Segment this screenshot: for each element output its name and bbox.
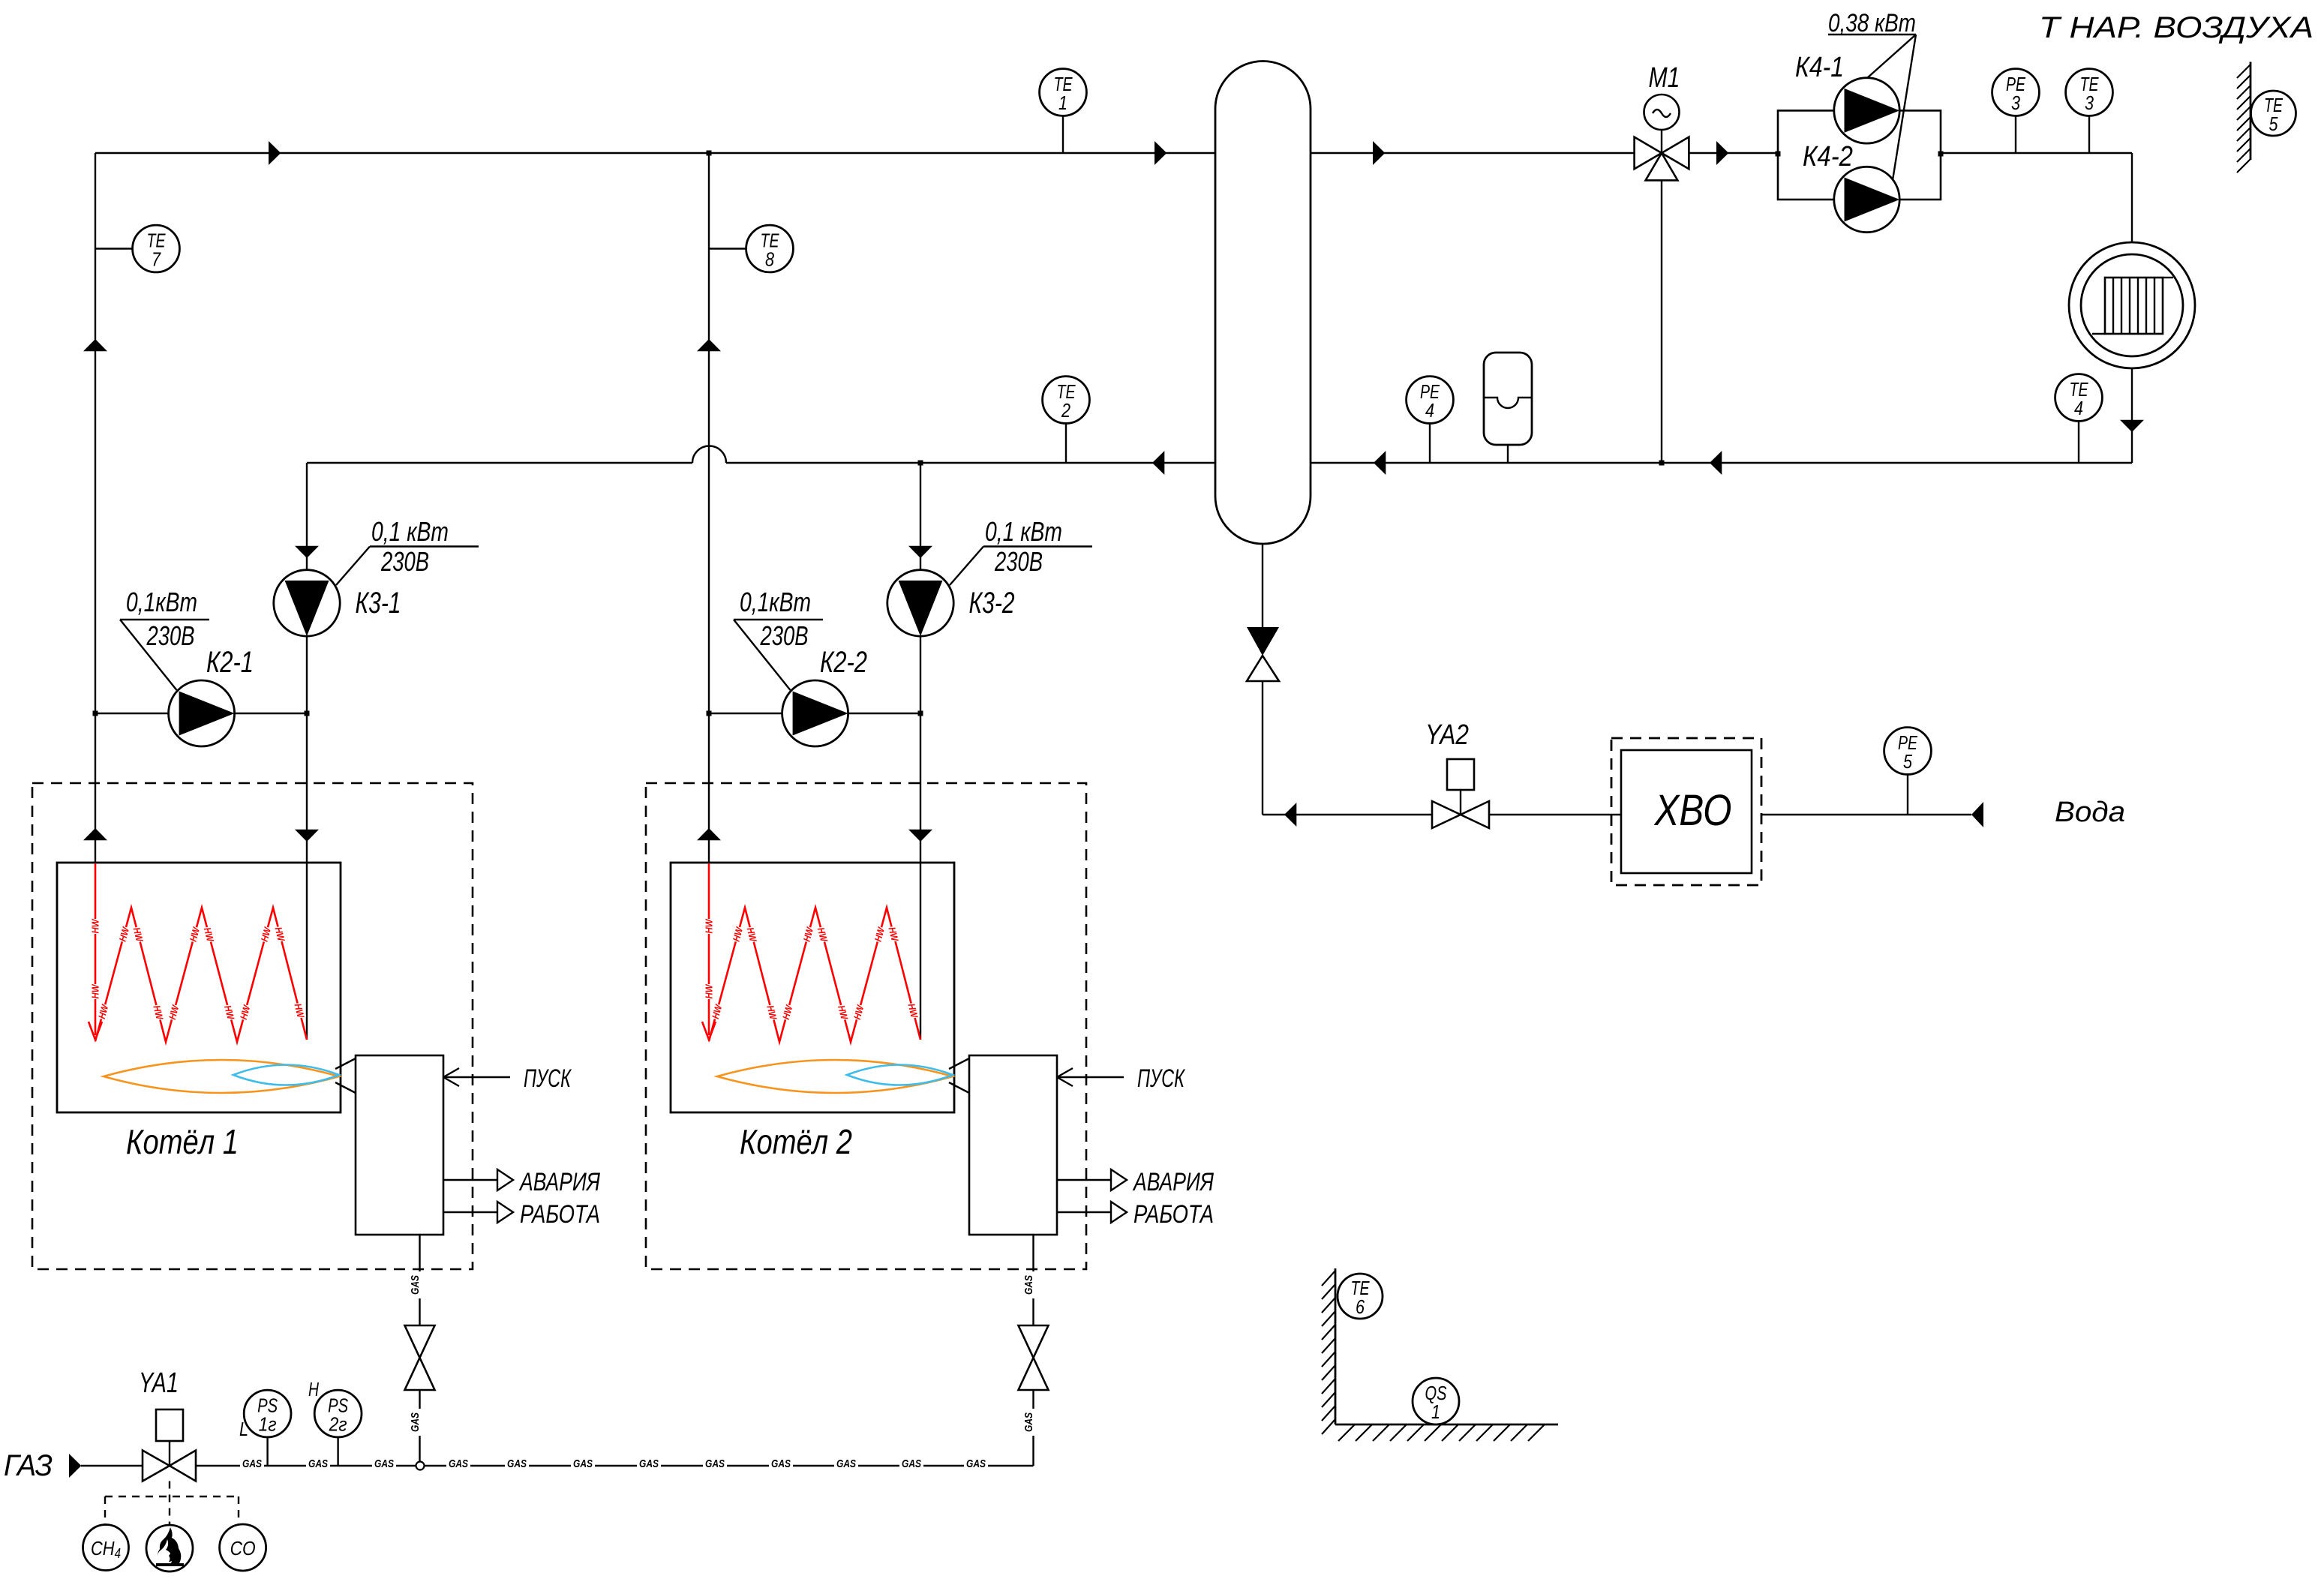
- wire PE5 stem: [1907, 775, 1908, 815]
- instrument PS2 gas pressure switch high: [314, 1390, 362, 1437]
- check valve on makeup riser: [1247, 627, 1279, 681]
- flow arrow boiler 1 return branch upper: [295, 546, 319, 558]
- boiler 2 dashed enclosure: [646, 783, 1086, 1269]
- svg-text:5: 5: [1903, 750, 1912, 773]
- svg-text:GAS: GAS: [374, 1457, 394, 1470]
- wire TE3 stem: [2088, 116, 2090, 153]
- signal output RABOTA boiler 1: [443, 1200, 600, 1229]
- wire boiler 1 internal return drop: [306, 863, 308, 1040]
- wire supply header: [95, 152, 2132, 154]
- svg-text:230В: 230В: [994, 546, 1043, 577]
- vessel hydraulic separator: [1215, 62, 1311, 545]
- flow arrow boiler 2 supply riser upper: [697, 339, 721, 351]
- wire PS2 stem: [337, 1437, 338, 1466]
- svg-text:CO: CO: [230, 1537, 256, 1559]
- wall and floor mount for TE6 and QS1: [1322, 1268, 1558, 1441]
- svg-text:GAS: GAS: [573, 1457, 593, 1470]
- svg-text:HW: HW: [90, 918, 101, 934]
- wire boiler 1 recirculation line: [95, 713, 307, 714]
- svg-text:Котёл 1: Котёл 1: [126, 1122, 239, 1161]
- junction node recirculation/supply riser boiler 1: [93, 711, 98, 716]
- svg-text:HW: HW: [90, 983, 101, 999]
- valve three-way M1: [1635, 137, 1689, 181]
- valve gas shutoff boiler 2: [1019, 1325, 1049, 1390]
- svg-text:YA1: YA1: [139, 1367, 179, 1399]
- svg-text:230В: 230В: [760, 620, 809, 651]
- flow arrow makeup toward separator: [1284, 803, 1296, 827]
- svg-text:Вода: Вода: [2055, 797, 2125, 828]
- instrument PS1 gas pressure switch low: [244, 1390, 291, 1437]
- instrument TE1: [1040, 69, 1087, 116]
- svg-text:1: 1: [1431, 1400, 1440, 1423]
- wire TE8 stem: [709, 248, 746, 249]
- svg-text:8: 8: [765, 248, 774, 271]
- svg-text:0,38 кВт: 0,38 кВт: [1828, 9, 1916, 38]
- signal input PUSK boiler 1: [443, 1064, 572, 1093]
- junction node recirculation/supply riser boiler 2: [707, 711, 712, 716]
- svg-text:H: H: [308, 1378, 319, 1400]
- wire PS1 stem: [266, 1437, 268, 1466]
- valve gas shutoff boiler 1: [405, 1325, 435, 1390]
- junction node recirculation/return riser boiler 2: [918, 711, 923, 716]
- label K2-1 power 0,1 kW 230V with leader: [120, 587, 254, 690]
- pump K4-1: [1834, 78, 1899, 143]
- water treatment unit XVO: [1611, 738, 1761, 885]
- svg-text:ПУСК: ПУСК: [524, 1064, 572, 1093]
- label Kotel 2: [740, 1122, 852, 1161]
- pump K2-2: [782, 680, 848, 746]
- junction node frame K4 left: [1776, 152, 1781, 157]
- svg-text:1: 1: [1058, 92, 1067, 114]
- svg-text:К4-2: К4-2: [1803, 141, 1853, 173]
- boiler 2 body: [671, 863, 954, 1112]
- signal output RABOTA boiler 2: [1057, 1200, 1214, 1229]
- signal input PUSK boiler 2: [1057, 1064, 1185, 1093]
- wire boiler 2 internal return drop: [920, 863, 921, 1040]
- wire M1 bypass drop: [1661, 180, 1662, 463]
- svg-text:7: 7: [152, 248, 161, 271]
- label K2-2 power 0,1 kW 230V with leader: [734, 587, 867, 690]
- instrument TE7: [133, 225, 180, 272]
- svg-text:К2-1: К2-1: [206, 646, 254, 679]
- instrument TE6: [1338, 1274, 1383, 1319]
- label K3-2 power 0,1 kW 230V with leader: [950, 516, 1092, 620]
- flow arrow supply before separator: [1154, 141, 1167, 165]
- flow arrow boiler 1 supply riser upper: [83, 339, 107, 351]
- svg-text:6: 6: [1356, 1295, 1365, 1318]
- svg-text:4: 4: [2074, 397, 2083, 419]
- svg-text:GAS: GAS: [966, 1457, 986, 1470]
- pump K3-2: [887, 570, 953, 636]
- svg-text:Котёл 2: Котёл 2: [740, 1122, 852, 1161]
- label K4-2: [1803, 141, 1853, 173]
- svg-text:L: L: [239, 1418, 248, 1440]
- wire TE2 stem: [1065, 423, 1067, 463]
- flow arrow water inlet: [1971, 802, 1983, 827]
- wire drop to heat exchanger: [2131, 153, 2133, 242]
- svg-text:GAS: GAS: [902, 1457, 921, 1470]
- flow arrow down to return: [2120, 420, 2144, 432]
- wire return header with pipe hop: [307, 446, 2132, 464]
- boiler 1 burner nozzle: [335, 1058, 356, 1093]
- wire PE4 stem: [1429, 423, 1431, 463]
- svg-text:GAS: GAS: [507, 1457, 527, 1470]
- svg-text:GAS: GAS: [771, 1457, 791, 1470]
- label K3-1 power 0,1 kW 230V with leader: [336, 516, 479, 620]
- flow arrow boiler 2 return branch upper: [908, 546, 932, 558]
- flow arrow boiler 1 return branch at boiler: [295, 830, 319, 842]
- wire separator bottom stem: [1263, 544, 1432, 815]
- svg-text:HW: HW: [704, 983, 715, 999]
- svg-text:0,1кВт: 0,1кВт: [126, 587, 197, 617]
- flow arrow boiler 1 supply riser at boiler: [83, 828, 107, 840]
- svg-text:GAS: GAS: [1022, 1412, 1035, 1432]
- svg-text:M1: M1: [1649, 62, 1680, 94]
- wire boiler 2 recirculation line: [709, 713, 920, 714]
- signal output AVARIA boiler 2: [1057, 1168, 1215, 1196]
- svg-text:РАБОТА: РАБОТА: [520, 1200, 600, 1229]
- svg-text:GAS: GAS: [836, 1457, 856, 1470]
- boiler 1 burner control box: [356, 1055, 443, 1235]
- wire PE3 stem: [2015, 116, 2016, 153]
- boiler 1 body: [57, 863, 341, 1112]
- svg-text:5: 5: [2269, 113, 2278, 135]
- label YA1: [139, 1367, 179, 1399]
- svg-text:230В: 230В: [146, 620, 195, 651]
- pump K2-1: [169, 680, 235, 746]
- instrument TE3: [2066, 69, 2113, 116]
- junction node recirculation/return riser boiler 1: [305, 711, 310, 716]
- gas sensor CO: [220, 1524, 266, 1571]
- flame sensor: [146, 1525, 193, 1571]
- flow arrow gas inlet: [69, 1454, 81, 1478]
- wire gas drop to boiler 1 with GAS tags: [409, 1235, 422, 1466]
- svg-text:GAS: GAS: [242, 1457, 262, 1470]
- label Kotel 1: [126, 1122, 239, 1161]
- junction node supply / boiler 2 riser: [707, 151, 712, 156]
- svg-text:К3-2: К3-2: [969, 587, 1015, 620]
- heat exchanger fan coil: [2069, 242, 2195, 368]
- instrument QS1: [1413, 1378, 1459, 1424]
- expansion tank: [1484, 353, 1532, 463]
- boiler 2 burner flame: [717, 1060, 953, 1093]
- pump K3-1: [274, 570, 340, 636]
- svg-text:3: 3: [2011, 92, 2020, 114]
- flow arrow return right of separator: [1374, 451, 1386, 475]
- wire gas header with GAS tags: [196, 1457, 1034, 1470]
- svg-text:К3-1: К3-1: [356, 587, 401, 620]
- svg-text:4: 4: [1425, 399, 1434, 422]
- svg-text:2г: 2г: [329, 1413, 347, 1436]
- svg-text:АВАРИЯ: АВАРИЯ: [518, 1168, 600, 1196]
- wall mount for TE5: [2237, 62, 2250, 173]
- boiler 2 burner control box: [969, 1055, 1057, 1235]
- svg-text:YA2: YA2: [1425, 719, 1469, 751]
- wire TE1 stem: [1062, 116, 1064, 153]
- label T NAR. VOZDUHA: [2039, 11, 2313, 44]
- label L for PS1: [239, 1418, 248, 1440]
- wire TE7 stem: [95, 248, 133, 249]
- boiler 1 dashed enclosure: [32, 783, 473, 1269]
- pump group frame K4: [1778, 110, 1941, 200]
- svg-text:230В: 230В: [380, 546, 429, 577]
- label GAZ: [4, 1449, 53, 1482]
- svg-text:К2-2: К2-2: [820, 646, 867, 679]
- wire TE4 stem: [2078, 421, 2079, 463]
- instrument PE5: [1884, 728, 1932, 775]
- flow arrow return left of separator: [1152, 451, 1164, 475]
- wire boiler 1 return branch (K3 riser): [306, 463, 308, 863]
- svg-text:HW: HW: [704, 918, 715, 934]
- svg-text:Т НАР. ВОЗДУХА: Т НАР. ВОЗДУХА: [2039, 11, 2313, 44]
- flow arrow supply after valve M1: [1716, 141, 1728, 165]
- label Voda: [2055, 797, 2125, 828]
- boiler 2 hot water internal line (HW): [702, 863, 920, 1042]
- flow arrow boiler 2 return branch at boiler: [908, 830, 932, 842]
- wire boiler 2 return branch (K3 riser): [920, 463, 921, 863]
- svg-text:РАБОТА: РАБОТА: [1133, 1200, 1214, 1229]
- solenoid valve YA1: [143, 1409, 196, 1481]
- flow arrow boiler 2 supply riser at boiler: [697, 828, 721, 840]
- instrument TE2: [1043, 377, 1090, 424]
- svg-text:2: 2: [1061, 399, 1070, 422]
- signal output AVARIA boiler 1: [443, 1168, 601, 1196]
- boiler 1 burner flame: [104, 1060, 339, 1093]
- svg-text:GAS: GAS: [639, 1457, 659, 1470]
- label 0,38 kW with leaders: [1828, 9, 1916, 180]
- gas sensor CH4: [83, 1525, 129, 1571]
- svg-text:ПУСК: ПУСК: [1137, 1064, 1185, 1093]
- svg-text:GAS: GAS: [409, 1275, 422, 1295]
- instrument TE8: [746, 225, 794, 272]
- dashed links YA1 to gas sensors: [105, 1481, 239, 1526]
- wire boiler 1 supply riser: [95, 153, 96, 863]
- svg-text:ГАЗ: ГАЗ: [4, 1449, 53, 1482]
- label M1: [1649, 62, 1680, 94]
- wire heat exchanger to return: [2131, 368, 2133, 463]
- instrument TE4: [2055, 374, 2103, 422]
- svg-text:0,1 кВт: 0,1 кВт: [371, 516, 449, 547]
- svg-text:ХВО: ХВО: [1653, 786, 1732, 835]
- flow arrow return right of M1 branch: [1710, 451, 1722, 475]
- flow arrow supply near boiler 1: [269, 141, 281, 165]
- instrument PE3: [1992, 69, 2040, 116]
- svg-text:3: 3: [2085, 92, 2094, 114]
- junction node return / M1 branch: [1659, 461, 1665, 466]
- svg-text:1г: 1г: [259, 1413, 277, 1436]
- instrument PE4: [1407, 377, 1454, 424]
- wire gas drop to boiler 2 with GAS tags: [1022, 1235, 1035, 1466]
- junction node frame K4 right: [1938, 152, 1944, 157]
- svg-text:К4-1: К4-1: [1795, 52, 1844, 83]
- instrument TE5: [2251, 91, 2296, 136]
- svg-text:GAS: GAS: [1022, 1275, 1035, 1295]
- junction node return / boiler 2 branch: [918, 461, 923, 466]
- svg-text:АВАРИЯ: АВАРИЯ: [1132, 1168, 1214, 1196]
- boiler 1 hot water internal line (HW): [89, 863, 307, 1042]
- svg-text:GAS: GAS: [409, 1412, 422, 1432]
- svg-text:0,1 кВт: 0,1 кВт: [985, 516, 1062, 547]
- boiler 2 burner nozzle: [949, 1058, 969, 1093]
- svg-text:GAS: GAS: [705, 1457, 725, 1470]
- label H for PS2: [308, 1378, 319, 1400]
- junction node gas header / boiler 1 drop: [416, 1462, 425, 1470]
- pump K4-2: [1834, 167, 1899, 232]
- wire gas inlet to YA1: [81, 1465, 143, 1466]
- svg-text:0,1кВт: 0,1кВт: [740, 587, 811, 617]
- wire boiler 2 supply riser: [708, 153, 710, 863]
- solenoid valve YA2: [1432, 759, 1489, 828]
- wire water inlet line: [1761, 814, 1971, 815]
- motor actuator M1: [1644, 95, 1680, 153]
- flow arrow supply after separator: [1373, 141, 1385, 165]
- label YA2: [1425, 719, 1469, 751]
- svg-text:GAS: GAS: [308, 1457, 328, 1470]
- svg-text:GAS: GAS: [449, 1457, 468, 1470]
- label K4-1: [1795, 52, 1844, 83]
- wire YA2 to water treatment: [1489, 814, 1621, 815]
